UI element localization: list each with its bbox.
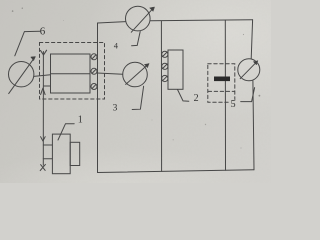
label 3 leader	[132, 86, 143, 109]
wire to test object 1 with probe arrows	[41, 137, 46, 141]
fuse 5 dashed box	[208, 64, 235, 102]
label 4 leader	[132, 32, 141, 46]
transformer output terminals	[91, 54, 97, 90]
label 5	[229, 100, 235, 108]
test object 1 body	[52, 134, 70, 174]
regulator T6 (left circle)	[9, 61, 34, 86]
label 1 leader	[58, 124, 74, 140]
load block 2 body	[168, 50, 183, 89]
label 2 leader	[178, 90, 189, 102]
wire: enclosure right edge, above meter P5	[251, 20, 252, 59]
label 5 leader	[241, 88, 255, 102]
scan speckles	[12, 8, 260, 149]
wire vertical bus B (x=225.4)	[224, 20, 226, 170]
svg-text:4: 4	[114, 41, 119, 51]
wire: enclosure top edge, left of meter P4	[98, 22, 126, 23]
wire: enclosure bottom edge	[98, 170, 255, 173]
svg-text:1: 1	[78, 114, 83, 125]
dashed box around transformer	[40, 43, 105, 100]
meter P4 (top circle, adjustable: diagonal arrow)	[126, 6, 151, 31]
load block 2 terminals	[162, 51, 168, 81]
wire: enclosure top edge, right of meter P4	[150, 20, 253, 21]
wire from T6 to transformer	[34, 75, 51, 77]
wire: enclosure right edge, below meter P5	[253, 81, 254, 170]
svg-text:5: 5	[231, 99, 236, 110]
transformer body	[51, 54, 91, 93]
label 6 leader	[15, 31, 40, 56]
transformer left contact bar	[42, 52, 44, 166]
svg-text:2: 2	[194, 93, 199, 104]
wire vertical bus A (x=161.5)	[160, 21, 162, 171]
svg-text:3: 3	[113, 104, 118, 114]
meter P5 (right circle)	[238, 59, 260, 81]
wire terminals to P3	[97, 73, 123, 74]
fuse element	[214, 77, 230, 82]
svg-text:6: 6	[40, 25, 46, 37]
meter P3 (middle circle)	[123, 62, 148, 87]
wire: enclosure left edge	[97, 23, 99, 173]
